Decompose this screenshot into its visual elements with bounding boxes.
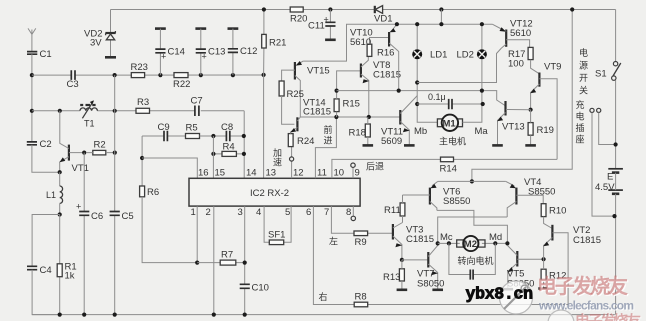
node Md cap branch	[493, 241, 497, 245]
svg-text:1: 1	[191, 207, 196, 218]
node LD1 top	[415, 22, 419, 26]
svg-text:R21: R21	[269, 38, 286, 49]
node rail-T1	[30, 109, 34, 113]
transistor VT10 5610	[350, 24, 399, 91]
resistor R15	[334, 71, 360, 117]
svg-text:R4: R4	[223, 142, 235, 153]
svg-text:R23: R23	[131, 62, 148, 73]
transistor VT12 5610	[492, 19, 532, 49]
node R21 bottom	[262, 73, 266, 77]
svg-text:R22: R22	[173, 79, 190, 90]
watermark red text 2 partial	[575, 312, 642, 321]
transistor VT8 C1815	[361, 56, 401, 117]
battery E 4.5V	[595, 169, 623, 315]
node R2 / C5 rail	[113, 151, 117, 155]
svg-text:R18: R18	[349, 128, 366, 139]
svg-text:15: 15	[215, 168, 226, 179]
svg-text:100: 100	[508, 59, 524, 70]
wire pin16	[142, 158, 197, 178]
transistor VT7 S8050	[417, 243, 444, 289]
svg-text:插: 插	[576, 122, 585, 133]
svg-text:Mb: Mb	[414, 126, 427, 137]
svg-text:16: 16	[198, 168, 209, 179]
svg-text:S8050: S8050	[417, 279, 444, 290]
svg-text:5610: 5610	[350, 37, 371, 48]
svg-text:3: 3	[238, 207, 243, 218]
node C8/pin14	[242, 134, 246, 138]
resistor R5	[186, 123, 244, 139]
svg-text:C1815: C1815	[406, 234, 434, 245]
svg-text:+: +	[76, 202, 81, 212]
resistor R13	[383, 260, 407, 290]
wire VT3 emitter to VT7 base	[402, 259, 428, 261]
svg-text:左: 左	[329, 236, 338, 247]
svg-text:9: 9	[355, 168, 360, 179]
svg-text:2: 2	[206, 207, 211, 218]
node Mc VT7 collector	[436, 241, 440, 245]
wire Mc-Md motor line	[438, 242, 508, 244]
wire motor feedback line	[337, 91, 505, 106]
motor M2	[457, 236, 494, 266]
wire pin 10 backward line	[332, 159, 557, 178]
power switch label	[579, 47, 588, 96]
svg-text:C3: C3	[67, 79, 79, 90]
wire to C4	[32, 215, 60, 267]
node Ma 0.1u	[481, 102, 485, 106]
svg-text:R6: R6	[147, 187, 159, 198]
transistor VT11 5609	[381, 96, 417, 148]
node T1 line / VT1 collector	[58, 109, 62, 113]
svg-text:C11: C11	[308, 21, 325, 32]
backward terminal pin 9	[351, 162, 384, 179]
resistor R20	[290, 7, 307, 25]
node T1 line / C5 branch	[113, 109, 117, 113]
lamp LD1	[412, 24, 447, 122]
svg-text:12: 12	[293, 168, 304, 179]
node VT8 base / R15 top line	[335, 89, 339, 93]
resistor R11	[384, 195, 405, 223]
svg-text:S8550: S8550	[528, 187, 555, 198]
node L1 / C4	[58, 212, 62, 216]
svg-text:www.elecfans.com: www.elecfans.com	[538, 299, 634, 313]
svg-text:C14: C14	[168, 47, 185, 58]
node R7 pin3	[243, 261, 247, 265]
svg-text:SF1: SF1	[268, 230, 285, 241]
capacitor C2	[27, 139, 52, 150]
node battery minus / socket	[612, 214, 616, 218]
watermark elecfans red text	[537, 274, 629, 299]
svg-text:5610: 5610	[510, 28, 531, 39]
wire C3 line	[32, 74, 264, 76]
svg-text:4: 4	[256, 207, 261, 218]
svg-text:右: 右	[319, 291, 328, 302]
node pin1 R7	[195, 261, 199, 265]
accelerate terminal on pin 12	[273, 147, 294, 179]
resistor R7	[197, 250, 245, 266]
resistor R18	[349, 117, 374, 145]
svg-text:R20: R20	[290, 14, 307, 25]
svg-text:7: 7	[324, 207, 329, 218]
capacitor C13 electrolytic	[195, 29, 225, 76]
resistor R4	[213, 142, 244, 157]
svg-text:Mc: Mc	[440, 232, 453, 243]
svg-text:10: 10	[334, 168, 345, 179]
node R4 left / pin15	[211, 152, 215, 156]
node rail-C3	[30, 73, 34, 77]
resistor R10	[541, 204, 566, 229]
node C3/VD2 branch	[113, 73, 117, 77]
node VT10 collector on feedback line	[397, 89, 401, 93]
node C14 tap	[158, 73, 162, 77]
svg-text:C1815: C1815	[303, 107, 331, 118]
node C12 tap	[231, 73, 235, 77]
svg-text:C7: C7	[191, 96, 203, 107]
capacitor C12	[228, 29, 258, 76]
svg-text:转向电机: 转向电机	[458, 255, 494, 266]
svg-text:充: 充	[576, 99, 585, 110]
svg-text:VT13: VT13	[502, 122, 525, 133]
IC U1 IC2 RX-2	[189, 178, 360, 206]
node supply drop after VD1	[439, 7, 443, 26]
svg-text:R19: R19	[537, 125, 554, 136]
svg-text:R24: R24	[297, 136, 314, 147]
node Mb light line	[415, 80, 419, 84]
svg-text:C9: C9	[158, 122, 170, 133]
svg-text:6: 6	[306, 207, 311, 218]
svg-text:L1: L1	[46, 190, 56, 200]
svg-text:R14: R14	[440, 164, 457, 175]
svg-text:8: 8	[346, 207, 351, 218]
transistor VT13	[492, 101, 530, 145]
transistor VT1	[60, 111, 89, 174]
svg-text:R15: R15	[343, 99, 360, 110]
transistor VT9	[530, 62, 561, 160]
capacitor C8	[221, 122, 233, 141]
transistor VT6 S8550	[403, 181, 471, 210]
svg-text:VT15: VT15	[307, 66, 330, 77]
svg-text:C5: C5	[122, 211, 134, 222]
resistor R23	[131, 62, 148, 78]
svg-text:M1: M1	[443, 119, 457, 130]
wire left rail C1 to C2	[31, 54, 33, 141]
wire VT15 emitter to supply	[303, 24, 492, 61]
svg-text:+: +	[161, 52, 166, 62]
svg-text:R13: R13	[383, 272, 400, 283]
svg-text:IC2 RX-2: IC2 RX-2	[250, 188, 289, 199]
svg-text:3V: 3V	[90, 38, 102, 49]
svg-text:C2: C2	[40, 139, 52, 150]
svg-text:C1815: C1815	[573, 235, 601, 246]
svg-text:C1: C1	[40, 49, 52, 60]
transistor VT5 S8050	[503, 245, 544, 289]
node bus pin2	[212, 313, 216, 317]
svg-text:LD2: LD2	[457, 50, 474, 61]
resistor R1 1k	[57, 215, 76, 315]
resistor R3	[136, 97, 150, 113]
charging socket	[576, 99, 616, 216]
switch SF1	[264, 206, 291, 245]
wire VT12 collector to Mb	[417, 48, 501, 83]
transformer T1	[80, 100, 97, 128]
capacitor C7	[191, 96, 203, 117]
transistor VT2 C1815	[543, 225, 601, 305]
capacitor C6 electrolytic	[76, 153, 103, 315]
svg-text:E: E	[607, 172, 613, 183]
svg-text:后退: 后退	[366, 162, 384, 172]
zener diode VD2 3V	[84, 10, 116, 58]
svg-text:R5: R5	[186, 123, 198, 134]
wire Ma vertical	[463, 24, 482, 122]
resistor R9	[354, 231, 368, 248]
svg-text:5609: 5609	[381, 136, 402, 147]
node VT2 emitter / R12	[542, 257, 546, 261]
svg-text:R2: R2	[94, 140, 106, 151]
wire T1 line	[32, 110, 244, 112]
transistor VT14 C1815	[290, 98, 331, 134]
svg-text:13: 13	[266, 168, 277, 179]
resistor R24	[288, 134, 314, 147]
svg-text:R8: R8	[355, 292, 367, 303]
bottom bus	[32, 314, 615, 316]
svg-text:电: 电	[576, 111, 585, 122]
svg-text:M2: M2	[464, 239, 477, 250]
svg-text:+: +	[202, 52, 207, 62]
svg-text:R16: R16	[377, 48, 394, 59]
node LD2 top	[480, 22, 484, 26]
svg-text:Ma: Ma	[475, 126, 489, 137]
svg-text:LD1: LD1	[430, 50, 447, 61]
svg-text:C10: C10	[252, 283, 269, 294]
wire C5 rail vertical	[114, 75, 116, 315]
node R4 right / pin14	[242, 152, 246, 156]
top bus	[111, 9, 616, 11]
svg-text:1k: 1k	[65, 271, 75, 282]
wire pin 1	[196, 206, 198, 263]
svg-text:C6: C6	[91, 211, 103, 222]
capacitor C10	[240, 283, 269, 294]
wire C9 corner to R6	[141, 136, 143, 186]
svg-text:R11: R11	[384, 205, 401, 216]
svg-text:C12: C12	[240, 46, 257, 57]
node bus C5	[113, 313, 117, 317]
wire pin 11 forward link	[315, 117, 336, 178]
svg-text:ybx8.cn: ybx8.cn	[466, 285, 533, 304]
inductor L1	[46, 172, 63, 214]
svg-text:11: 11	[317, 168, 327, 179]
capacitor C14 electrolytic	[155, 29, 185, 76]
capacitor C5	[110, 211, 134, 222]
svg-text:5: 5	[285, 207, 290, 218]
resistor R16	[367, 38, 394, 59]
svg-text:VT9: VT9	[544, 62, 561, 73]
node VT1 base / C6	[82, 151, 86, 155]
watermark elecfans url	[538, 299, 635, 314]
node R5/C8/pin15	[211, 134, 215, 138]
lamp LD2	[457, 49, 487, 60]
antenna	[28, 28, 36, 51]
node R6 / pin16	[140, 156, 144, 160]
svg-text:C8: C8	[221, 122, 233, 133]
resistor R14	[440, 157, 457, 174]
motor M1	[437, 115, 466, 147]
svg-text:R10: R10	[549, 206, 566, 217]
wire supply to steering bridge	[472, 10, 572, 182]
capacitor C1	[27, 49, 52, 60]
svg-text:C1815: C1815	[373, 70, 401, 81]
svg-text:VT1: VT1	[72, 163, 89, 174]
node Ma feedback	[480, 89, 484, 93]
transistor VT4 S8550	[506, 177, 556, 217]
svg-text:进: 进	[324, 136, 333, 146]
svg-text:源: 源	[579, 61, 588, 71]
svg-text:加: 加	[273, 148, 282, 158]
capacitor across M2	[449, 243, 495, 279]
resistor R12	[538, 259, 566, 288]
resistor R8	[354, 292, 368, 307]
diode VD1	[374, 6, 392, 25]
node forward stub / R15	[334, 115, 338, 119]
svg-text:14: 14	[246, 168, 257, 179]
watermark stamp circle	[500, 281, 533, 314]
svg-text:前: 前	[324, 124, 333, 135]
node VT8 emitter / R18	[367, 115, 371, 119]
node VT3 emitter / R13	[400, 258, 404, 262]
transistor VT3 C1815	[393, 223, 434, 260]
svg-text:R7: R7	[221, 250, 233, 261]
transistor VT15	[282, 61, 330, 117]
wire pin 6 to R8	[313, 206, 568, 304]
resistor R17 100	[508, 47, 539, 73]
svg-text:座: 座	[576, 134, 585, 145]
svg-text:4.5V: 4.5V	[595, 182, 615, 193]
svg-text:T1: T1	[84, 119, 95, 129]
node Mb 0.1u	[415, 102, 419, 106]
node supply top right	[570, 7, 574, 11]
wire pin 2 to bus	[213, 206, 215, 315]
wire VT6 collector crossover to Md	[437, 210, 508, 243]
svg-text:电: 电	[579, 47, 588, 58]
capacitor 0.1u	[417, 92, 483, 109]
svg-text:VD1: VD1	[374, 14, 392, 25]
power switch S1	[595, 10, 621, 169]
node Mc cap branch	[447, 241, 451, 245]
left terminal pin 8	[351, 206, 355, 220]
node socket to switch line	[614, 142, 618, 146]
node bridge emitters	[470, 179, 474, 183]
resistor R22	[173, 73, 190, 90]
wire C2 to VT1 emitter node	[32, 145, 60, 172]
capacitor C9	[142, 122, 185, 141]
svg-text:R25: R25	[287, 89, 304, 100]
svg-text:开: 开	[579, 73, 588, 83]
wire pin15 vertical	[212, 136, 214, 178]
resistor R2	[86, 140, 115, 155]
wire VT4 collector crossover to Mc	[438, 217, 508, 243]
node VT10 emitter	[395, 22, 399, 26]
capacitor C11 electrolytic	[308, 7, 336, 39]
svg-text:R9: R9	[355, 237, 367, 248]
wire emitter rail	[438, 180, 506, 182]
forward label	[324, 124, 333, 146]
resistor R25	[279, 81, 304, 124]
svg-text:速: 速	[273, 158, 282, 168]
node VT9 emitter / R19 / VT13 collector	[529, 108, 533, 112]
watermark stamp circle 2 partial	[548, 310, 574, 321]
wire C7 corner down to pin14	[243, 111, 245, 179]
node R21 top on bus	[262, 7, 266, 11]
svg-text:电子发烧友: 电子发烧友	[575, 312, 641, 321]
svg-text:C4: C4	[40, 265, 52, 276]
svg-text:关: 关	[579, 85, 588, 96]
svg-text:S8550: S8550	[443, 196, 470, 207]
capacitor C4	[27, 265, 60, 315]
node bus C6	[82, 313, 86, 317]
node bus R1	[58, 313, 62, 317]
svg-text:C13: C13	[208, 47, 225, 58]
svg-text:0.1μ: 0.1μ	[428, 92, 446, 102]
svg-text:S1: S1	[595, 69, 607, 80]
wire collector line VT14 to VT11 base	[300, 116, 400, 118]
resistor R6	[140, 186, 198, 263]
node C13 tap	[199, 73, 203, 77]
capacitor C3	[67, 70, 79, 90]
wire pin 3 / C10	[244, 206, 246, 315]
svg-text:电子发烧友: 电子发烧友	[537, 274, 628, 298]
svg-text:R3: R3	[137, 97, 149, 108]
resistor R19	[525, 110, 554, 146]
wire pin 7 to R9	[331, 206, 393, 233]
node Md VT5 collector	[505, 241, 509, 245]
svg-text:主电机: 主电机	[439, 136, 466, 147]
resistor R21	[262, 10, 287, 179]
node VT1 emitter / L1	[58, 170, 62, 174]
node bus C10	[243, 313, 247, 317]
